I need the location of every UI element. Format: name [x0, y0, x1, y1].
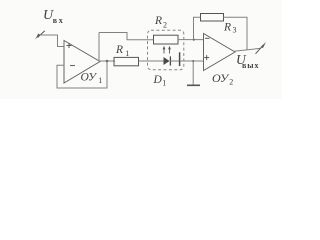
light arrows from D1 to R2 [163, 46, 171, 54]
bar at optocoupler output [179, 52, 181, 66]
svg-text:вх: вх [53, 16, 63, 25]
wire R1 to D1 anode [139, 60, 164, 62]
wire R3 right leg down to output [224, 17, 248, 50]
pin - of OU1 [70, 65, 75, 67]
svg-text:2: 2 [163, 21, 167, 30]
svg-text:R: R [223, 22, 231, 34]
wire top jog to R2 [99, 33, 154, 40]
wire OU1 feedback loop output to - input [57, 61, 107, 88]
svg-text:3: 3 [233, 26, 237, 35]
optocoupler dashed box [148, 30, 184, 69]
wire R3 left leg from - input node [194, 17, 201, 39]
diode D1 (LED) [164, 57, 170, 65]
wire to ground tee and OU2 + input [180, 60, 204, 62]
svg-text:вых: вых [242, 61, 259, 70]
wire D1 cathode [170, 60, 179, 62]
pin - of OU2 [205, 37, 210, 39]
op-amp U2 (OU2) triangle [204, 34, 236, 71]
pin + of OU1 [67, 43, 72, 48]
svg-text:R: R [154, 15, 162, 27]
node junction dot at output [106, 60, 109, 63]
svg-text:1: 1 [162, 79, 166, 88]
svg-text:1: 1 [125, 49, 129, 58]
svg-text:ОУ: ОУ [81, 71, 98, 83]
svg-text:R: R [115, 44, 123, 56]
wire OU2 output [234, 48, 261, 51]
node Uvx input terminal arrow [35, 31, 45, 40]
wire input Uvx to OU1 + input [40, 35, 64, 47]
svg-text:D: D [153, 74, 163, 86]
pin + of OU2 [204, 55, 209, 60]
diode D1 cathode bar [169, 56, 171, 65]
wire OU1 output [100, 60, 115, 62]
resistor R3 [201, 14, 224, 22]
op-amp U1 (OU1) triangle [64, 41, 100, 84]
node junction dot R3 to minus input [193, 39, 195, 41]
node Uvyx output terminal arrow [256, 42, 267, 54]
svg-text:1: 1 [98, 76, 102, 85]
ground [192, 61, 194, 85]
wire through R2 row to OU2 - input [178, 39, 204, 41]
node junction dot ground tee [192, 60, 194, 62]
resistor R2 (photoresistor) [154, 35, 179, 44]
svg-text:ОУ: ОУ [212, 71, 230, 85]
wire vertical from output node up to top wire [98, 33, 100, 62]
resistor R1 [114, 57, 139, 65]
svg-text:2: 2 [229, 78, 233, 87]
